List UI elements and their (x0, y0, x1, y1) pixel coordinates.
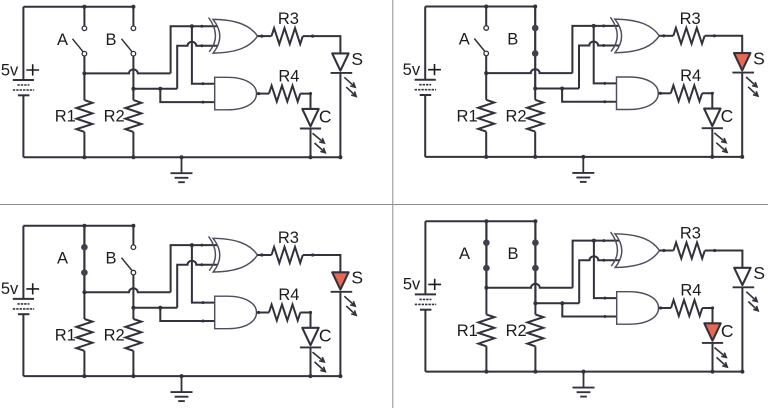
wire: node A horizontal with hop over B (Q3) (84, 288, 170, 292)
svg-text:S: S (351, 268, 363, 288)
led S (Q3) lit (331, 272, 353, 292)
wire: LED S cathode to bottom rail (Q3) (339, 292, 341, 376)
battery 5v (Q4) (415, 294, 436, 309)
svg-text:5v: 5v (403, 276, 421, 294)
wire: R4 to LED C (Q4) (702, 308, 712, 323)
switch B open (Q3) (122, 226, 136, 308)
wire: AND output to R4 (Q3) (257, 312, 270, 314)
pin dot XOR input 1 (Q1) (200, 25, 203, 28)
svg-text:R2: R2 (104, 327, 125, 345)
junction: LED S / bottom rail (Q1) (338, 155, 342, 159)
wire: left rail from battery + to top rail (Q3) (22, 226, 24, 299)
resistor R4 (Q3) (269, 305, 300, 321)
battery 5v (Q2) (415, 80, 436, 95)
junction: top rail / switch B (Q2) (533, 5, 537, 9)
junction: top rail / switch A (Q4) (484, 219, 488, 223)
junction: top rail / switch B (Q3) (131, 224, 135, 228)
wire: node B riser to XOR input 2 with hop (Q4) (579, 256, 620, 303)
wire: top power rail (Q1) (23, 6, 133, 8)
pin dot XOR output (Q1) (260, 35, 263, 38)
junction dot after R3 (Q3) (311, 253, 314, 256)
wire: R3 to LED S (Q3) (303, 255, 341, 272)
wire: left rail from battery + to top rail (Q1) (22, 7, 24, 80)
xor gate U1 (Q4) (611, 232, 660, 268)
svg-text:R3: R3 (278, 229, 299, 247)
switch A closed (Q3) (81, 226, 88, 293)
pin dot AND output (Q2) (659, 92, 662, 95)
wire: left rail battery - to bottom rail (Q1) (22, 95, 24, 157)
battery 5v (Q1) (13, 80, 34, 95)
switch B closed (Q4) (532, 221, 539, 303)
junction: switch A / R1 / node wire (Q3) (82, 290, 86, 294)
and gate U2 (Q4) (617, 292, 659, 325)
junction: ground / bottom rail (Q3) (180, 374, 184, 378)
junction: LED C / bottom rail (Q4) (711, 370, 715, 374)
junction: top rail / switch A (Q2) (484, 5, 488, 9)
pin dot XOR input 1 (Q2) (602, 24, 605, 27)
battery 5v (Q3) (13, 299, 34, 314)
wire: R3 to LED S (Q4) (705, 251, 743, 268)
wire: node B riser to XOR input 2 with hop (Q1) (177, 42, 218, 89)
xor gate U1 (Q3) (209, 236, 258, 272)
switch A closed (Q4) (483, 221, 490, 288)
wire: node A branch down to AND input 1 (Q4) (594, 241, 619, 299)
wire: left rail from battery + to top rail (Q4) (424, 221, 426, 294)
pin dot AND input 2 (Q1) (201, 101, 204, 104)
svg-text:R4: R4 (278, 286, 299, 304)
junction: switch A / R1 / node wire (Q2) (484, 71, 488, 75)
wire: node A branch down to AND input 1 (Q2) (594, 26, 619, 84)
svg-text:5v: 5v (403, 61, 421, 79)
wire: node A riser to XOR input 1 (Q1) (171, 26, 218, 73)
xor gate U1 (Q1) (209, 18, 258, 54)
svg-text:R2: R2 (104, 108, 125, 126)
junction dot after R3 (Q1) (311, 35, 314, 38)
resistor R3 (Q1) (272, 28, 303, 44)
pin dot XOR input 2 (Q4) (602, 259, 605, 262)
svg-text:B: B (105, 31, 116, 49)
wire: node A horizontal with hop over B (Q4) (486, 284, 572, 288)
panel divider vertical (392, 0, 394, 408)
svg-text:C: C (721, 321, 734, 341)
led S emission arrows (Q3) (344, 296, 356, 315)
wire: node A horizontal with hop over B (Q1) (84, 69, 170, 73)
svg-text:A: A (57, 250, 68, 268)
pin dot XOR input 2 (Q2) (602, 44, 605, 47)
junction: top rail / switch B (Q1) (131, 5, 135, 9)
resistor R2 (Q4) (527, 303, 543, 371)
svg-text:S: S (351, 49, 363, 69)
junction: switch A / R1 / node wire (Q4) (484, 286, 488, 290)
svg-text:S: S (753, 263, 765, 283)
svg-text:S: S (753, 49, 765, 69)
switch A open (Q2) (474, 7, 488, 74)
led C (Q3) (300, 328, 321, 348)
switch A open (Q1) (73, 7, 87, 74)
svg-text:R4: R4 (680, 67, 701, 85)
wire: LED C cathode to bottom rail (Q1) (310, 129, 312, 158)
wire: LED C cathode to bottom rail (Q2) (711, 128, 713, 157)
wire: LED C cathode to bottom rail (Q3) (310, 347, 312, 376)
junction: ground / bottom rail (Q4) (582, 370, 586, 374)
junction: R2 / bottom rail (Q2) (533, 155, 537, 159)
junction dot after R3 (Q2) (713, 34, 716, 37)
wire: bottom ground rail (Q3) (23, 375, 340, 377)
wire: R4 to LED C (Q3) (300, 313, 310, 328)
junction: R1 / bottom rail (Q1) (82, 155, 86, 159)
svg-text:R4: R4 (680, 282, 701, 300)
wire: R4 to LED C (Q2) (702, 93, 712, 108)
junction: R2 / bottom rail (Q3) (131, 374, 135, 378)
junction: R2 / bottom rail (Q1) (131, 155, 135, 159)
pin dot XOR input 2 (Q1) (200, 44, 203, 47)
junction: LED C / bottom rail (Q1) (309, 155, 313, 159)
wire: R3 to LED S (Q2) (705, 36, 743, 53)
led S emission arrows (Q2) (746, 77, 758, 96)
resistor R3 (Q3) (272, 247, 303, 263)
wire: node A branch down to AND input 1 (Q1) (192, 26, 217, 83)
svg-text:B: B (105, 250, 116, 268)
svg-text:R3: R3 (680, 225, 701, 243)
junction: node B branch (Q1) (158, 87, 162, 91)
wire: LED S cathode to bottom rail (Q1) (339, 73, 341, 157)
wire: LED S cathode to bottom rail (Q4) (741, 287, 743, 371)
svg-text:C: C (319, 325, 332, 345)
wire: XOR output to R3 (Q4) (660, 250, 674, 252)
switch B open (Q1) (122, 7, 136, 89)
wire: node A horizontal with hop over B (Q2) (486, 69, 572, 73)
wire: LED C cathode to bottom rail (Q4) (712, 343, 714, 372)
junction: LED C / bottom rail (Q3) (309, 374, 313, 378)
wire: node B horizontal (Q1) (133, 88, 177, 90)
svg-text:A: A (459, 31, 470, 49)
junction: R1 / bottom rail (Q4) (484, 370, 488, 374)
junction: R2 / bottom rail (Q4) (533, 370, 537, 374)
junction: node B branch (Q3) (158, 306, 162, 310)
wire: left rail from battery + to top rail (Q2) (424, 7, 426, 80)
svg-text:A: A (57, 31, 68, 49)
wire: left rail battery - to bottom rail (Q4) (424, 310, 426, 372)
wire: node B branch down to AND input 2 (Q2) (562, 89, 618, 102)
resistor R4 (Q2) (671, 85, 702, 101)
ground symbol (Q3) (171, 376, 193, 401)
panel divider horizontal (0, 204, 768, 206)
wire: top power rail (Q3) (23, 225, 133, 227)
wire: LED S cathode to bottom rail (Q2) (741, 73, 743, 157)
junction: node B branch (Q4) (560, 301, 564, 305)
pin dot XOR input 2 (Q3) (200, 263, 203, 266)
pin dot XOR input 1 (Q4) (602, 239, 605, 242)
wire: R3 to LED S (Q1) (303, 36, 341, 53)
junction: LED S / bottom rail (Q3) (338, 374, 342, 378)
svg-text:R3: R3 (680, 10, 701, 28)
junction: top rail / switch A (Q3) (82, 224, 86, 228)
ground symbol (Q2) (572, 157, 594, 182)
wire: node B riser to XOR input 2 with hop (Q3) (177, 261, 218, 308)
wire: bottom ground rail (Q4) (425, 371, 742, 373)
label + battery positive (Q1) (26, 64, 39, 75)
pin dot XOR output (Q2) (662, 34, 665, 37)
junction: ground / bottom rail (Q2) (581, 155, 585, 159)
junction: switch B / R2 / node wire (Q3) (131, 306, 135, 310)
and gate U2 (Q2) (617, 77, 659, 110)
svg-text:R1: R1 (457, 107, 478, 125)
switch B closed (Q2) (532, 7, 539, 89)
junction: switch B / R2 / node wire (Q4) (533, 301, 537, 305)
ground symbol (Q4) (573, 372, 595, 397)
junction: R1 / bottom rail (Q2) (484, 155, 488, 159)
wire: node B horizontal (Q4) (535, 302, 579, 304)
svg-text:C: C (721, 106, 734, 126)
pin dot AND output (Q4) (659, 306, 662, 309)
pin dot XOR input 1 (Q3) (200, 244, 203, 247)
led S (Q1) (331, 53, 353, 73)
wire: node A riser to XOR input 1 (Q3) (171, 245, 218, 292)
wire: node B horizontal (Q2) (535, 88, 579, 90)
pin dot AND input 2 (Q4) (603, 315, 606, 318)
resistor R3 (Q4) (674, 243, 705, 259)
wire: node A riser to XOR input 1 (Q4) (573, 241, 620, 288)
svg-text:B: B (507, 31, 518, 49)
label + battery positive (Q2) (428, 64, 441, 75)
label + battery positive (Q3) (26, 283, 39, 294)
and gate U2 (Q3) (215, 296, 257, 329)
junction dot R4 corner (Q3) (309, 311, 312, 314)
svg-text:R1: R1 (55, 327, 76, 345)
led C emission arrows (Q2) (714, 133, 727, 153)
wire: bottom ground rail (Q1) (23, 156, 340, 158)
pin dot AND input 2 (Q3) (201, 320, 204, 323)
led S emission arrows (Q1) (344, 77, 356, 96)
resistor R1 (Q1) (76, 73, 92, 157)
wire: node B branch down to AND input 2 (Q4) (562, 303, 618, 316)
led S (Q2) lit (732, 53, 754, 73)
svg-text:R4: R4 (278, 67, 299, 85)
pin dot AND input 1 (Q1) (201, 82, 204, 85)
junction dot after R3 (Q4) (713, 249, 716, 252)
wire: AND output to R4 (Q4) (659, 307, 672, 309)
wire: node A branch down to AND input 1 (Q3) (192, 245, 217, 303)
junction: switch B / R2 / node wire (Q2) (533, 87, 537, 91)
resistor R1 (Q4) (478, 288, 494, 372)
wire: XOR output to R3 (Q2) (659, 35, 673, 37)
wire: XOR output to R3 (Q1) (258, 35, 272, 37)
wire: bottom ground rail (Q2) (425, 156, 742, 158)
resistor R3 (Q2) (673, 28, 704, 44)
resistor R2 (Q1) (125, 89, 141, 157)
pin dot XOR output (Q3) (260, 253, 263, 256)
junction: switch B / R2 / node wire (Q1) (131, 87, 135, 91)
pin dot AND output (Q3) (257, 311, 260, 314)
svg-text:5v: 5v (1, 61, 19, 79)
wire: XOR output to R3 (Q3) (258, 254, 272, 256)
junction: LED S / bottom rail (Q2) (740, 155, 744, 159)
resistor R1 (Q3) (76, 292, 92, 376)
pin dot AND output (Q1) (257, 92, 260, 95)
junction: top rail / switch A (Q1) (82, 5, 86, 9)
junction: top rail / switch B (Q4) (533, 219, 537, 223)
led C emission arrows (Q4) (715, 348, 728, 368)
pin dot AND input 1 (Q3) (201, 301, 204, 304)
wire: node B horizontal (Q3) (133, 307, 177, 309)
svg-text:A: A (459, 245, 470, 263)
svg-text:C: C (319, 106, 332, 126)
junction dot R4 corner (Q2) (711, 92, 714, 95)
resistor R4 (Q4) (671, 300, 702, 316)
wire: top power rail (Q4) (425, 220, 535, 222)
wire: left rail battery - to bottom rail (Q3) (22, 314, 24, 376)
wire: R4 to LED C (Q1) (300, 94, 310, 109)
led C (Q4) lit (702, 323, 723, 343)
junction: node A branch (Q4) (592, 239, 596, 243)
wire: node B branch down to AND input 2 (Q3) (160, 308, 216, 321)
svg-text:B: B (507, 245, 518, 263)
junction: LED S / bottom rail (Q4) (740, 370, 744, 374)
resistor R2 (Q3) (125, 308, 141, 376)
junction: node A branch (Q2) (592, 24, 596, 28)
resistor R2 (Q2) (527, 89, 543, 157)
ground symbol (Q1) (171, 157, 193, 182)
led C (Q1) (300, 109, 321, 129)
wire: node B riser to XOR input 2 with hop (Q2) (579, 42, 620, 89)
wire: node B branch down to AND input 2 (Q1) (160, 89, 216, 102)
resistor R1 (Q2) (478, 73, 494, 157)
led C emission arrows (Q3) (313, 352, 326, 372)
junction dot R4 corner (Q1) (309, 92, 312, 95)
and gate U2 (Q1) (215, 77, 257, 110)
wire: AND output to R4 (Q1) (257, 93, 270, 95)
svg-text:R1: R1 (457, 322, 478, 340)
junction: ground / bottom rail (Q1) (180, 155, 184, 159)
wire: left rail battery - to bottom rail (Q2) (424, 95, 426, 157)
wire: top power rail (Q2) (425, 6, 535, 8)
led S emission arrows (Q4) (746, 292, 758, 311)
led S (Q4) (733, 268, 755, 288)
junction: node A branch (Q1) (190, 24, 194, 28)
resistor R4 (Q1) (269, 86, 300, 102)
wire: AND output to R4 (Q2) (658, 92, 671, 94)
junction: switch A / R1 / node wire (Q1) (82, 71, 86, 75)
label + battery positive (Q4) (428, 279, 441, 290)
svg-text:5v: 5v (1, 280, 19, 298)
pin dot AND input 1 (Q2) (603, 82, 606, 85)
junction: node B branch (Q2) (560, 87, 564, 91)
led C emission arrows (Q1) (313, 133, 326, 153)
led C (Q2) (702, 109, 723, 129)
svg-text:R2: R2 (506, 322, 527, 340)
junction: LED C / bottom rail (Q2) (710, 155, 714, 159)
svg-text:R2: R2 (505, 107, 526, 125)
svg-text:R1: R1 (55, 108, 76, 126)
pin dot AND input 1 (Q4) (603, 297, 606, 300)
junction dot R4 corner (Q4) (711, 306, 714, 309)
junction: R1 / bottom rail (Q3) (82, 374, 86, 378)
junction: node A branch (Q3) (190, 243, 194, 247)
svg-text:R3: R3 (278, 10, 299, 28)
wire: node A riser to XOR input 1 (Q2) (572, 26, 619, 73)
pin dot AND input 2 (Q2) (603, 100, 606, 103)
xor gate U1 (Q2) (610, 17, 659, 53)
pin dot XOR output (Q4) (662, 249, 665, 252)
